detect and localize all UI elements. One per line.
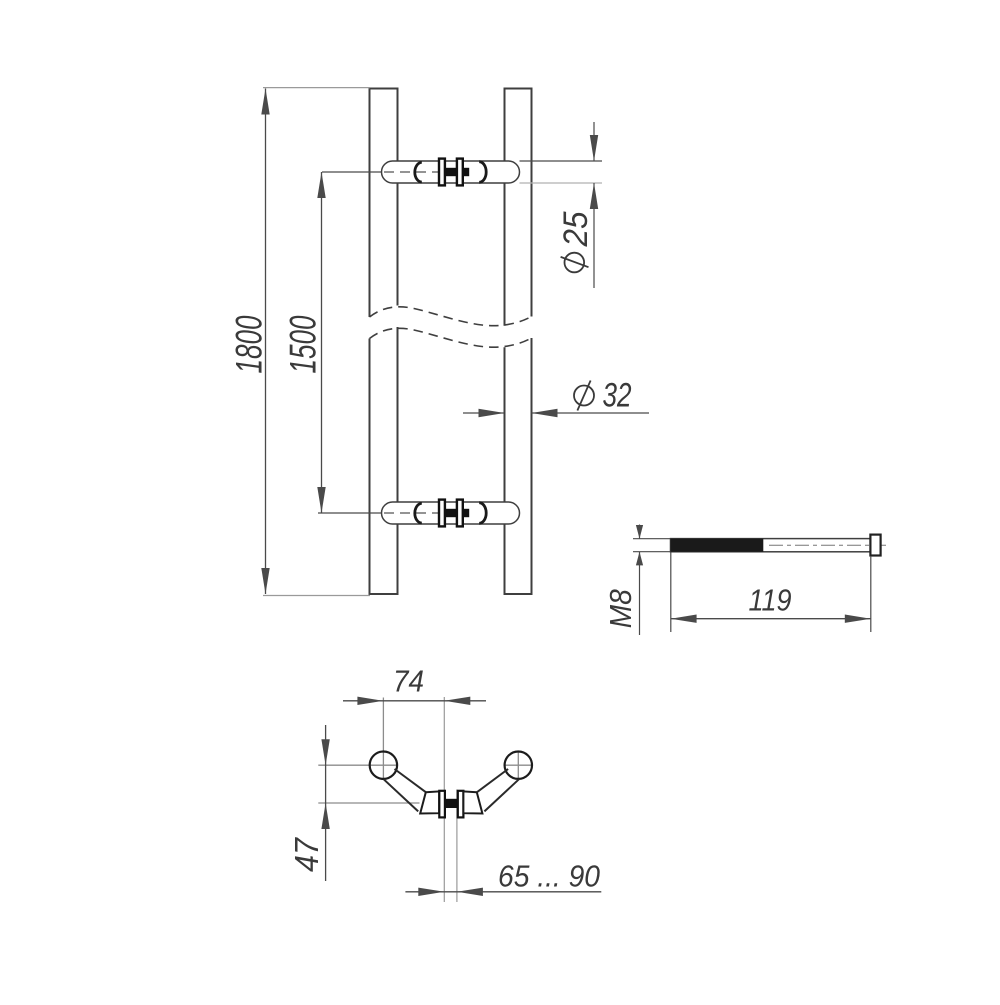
upper mounting connector: capsule body Ø25 — [382, 161, 520, 183]
upper connector: bolt tip square — [463, 168, 469, 176]
dimension 1800: arrowhead down — [261, 568, 269, 594]
top view: center extension line B (right washer face) — [456, 790, 458, 903]
top view: right circle horizontal tick — [505, 764, 532, 766]
front view: left tube Ø32 — [369, 89, 399, 595]
break line upper (dashed S-curve) — [370, 307, 532, 326]
dimension 47: dimension line — [325, 725, 327, 881]
svg-text:47: 47 — [288, 836, 325, 872]
dimension M8: extension lines — [633, 539, 670, 552]
dimension 47: arrowhead up — [321, 803, 329, 829]
svg-text:119: 119 — [749, 583, 792, 618]
top view: right leg lower edge — [484, 779, 519, 811]
top view: horizontal centerline through left circle — [318, 764, 398, 766]
lower connector: dashed centerline — [384, 512, 444, 514]
fixing bolt: threaded part (solid) — [671, 539, 764, 552]
dimension M8: upper line + arrowhead down — [639, 525, 641, 539]
lower connector: right washer arc — [479, 503, 486, 524]
dimension 1500: extension line bottom — [318, 512, 382, 514]
lower connector: left flange plate — [439, 500, 445, 527]
top view: left tube section circle — [370, 752, 397, 779]
lower mounting connector: capsule body Ø25 — [382, 502, 520, 524]
top view: right leg upper edge — [477, 769, 508, 792]
break line lower (dashed S-curve) — [370, 328, 532, 347]
upper connector: left flange plate — [439, 159, 445, 186]
top view: bolt shaft — [445, 799, 458, 808]
dimension 119: extension line left — [670, 553, 672, 633]
dimension 74: arrowhead right — [357, 697, 383, 705]
dimension 1500: extension line top — [322, 171, 382, 173]
fixing bolt: shaft outline — [671, 539, 871, 552]
dimension 1500: arrowhead down — [317, 487, 325, 513]
dimension 65...90: arrowhead left — [457, 888, 483, 896]
top view: extension line at 47 offset — [318, 802, 419, 804]
dimension 1800: arrowhead up — [261, 89, 269, 115]
dimension 1800: extension line bottom — [263, 595, 370, 597]
upper connector: dashed centerline — [384, 171, 444, 173]
dimension 1500: dimension line — [321, 172, 323, 513]
fixing bolt: centerline dash-dot — [769, 544, 886, 546]
dimension 119: arrowhead left — [671, 615, 697, 623]
top view: center extension line A (left washer face) — [443, 697, 445, 902]
dimension 1800: extension line top — [263, 87, 370, 89]
lower connector: bolt tip square — [463, 509, 469, 517]
front view: right tube Ø32 — [504, 89, 533, 595]
fixing bolt: head — [870, 535, 880, 556]
dimension 74: dimension line — [343, 700, 486, 702]
svg-text:25: 25 — [557, 211, 595, 247]
svg-text:32: 32 — [603, 377, 632, 415]
dimension Ø25: extension line top — [520, 160, 603, 162]
svg-text:65 ... 90: 65 ... 90 — [498, 859, 600, 894]
top view: left leg lower edge — [384, 779, 419, 811]
upper connector: right flange plate — [457, 159, 463, 186]
upper connector: right washer arc — [479, 162, 486, 183]
dimension 47: arrowhead down — [321, 739, 329, 765]
top view: right tube section circle — [505, 752, 532, 779]
dimension Ø25: arrowhead down — [590, 135, 598, 161]
lower connector: bolt shaft — [445, 509, 458, 517]
svg-text:74: 74 — [393, 664, 424, 699]
dimension 119: arrowhead right — [845, 615, 871, 623]
dimension Ø25: arrowhead up — [590, 183, 598, 209]
dimension Ø25: dimension line lower — [593, 183, 595, 288]
dimension 119: dimension line — [671, 618, 871, 620]
svg-text:1800: 1800 — [229, 315, 270, 373]
svg-text:M8: M8 — [603, 589, 638, 629]
top view: right cone flange — [463, 791, 482, 813]
lower connector: right flange plate — [457, 500, 463, 527]
lower connector: left washer arc — [415, 503, 422, 523]
upper connector: bolt shaft — [445, 168, 458, 176]
dimension 74: arrowhead left — [444, 697, 470, 705]
dimension Ø25: diameter symbol — [561, 253, 589, 273]
upper connector: left washer arc — [415, 162, 422, 182]
top view: left leg upper edge — [395, 769, 427, 792]
dimension 119: extension line right — [870, 556, 872, 632]
dimension Ø32: dimension line right with arrowhead — [532, 412, 650, 414]
dimension Ø32: dimension line left with arrowhead — [463, 412, 504, 414]
top view: left cone flange — [420, 791, 439, 813]
dimension Ø25: extension line bottom (light) — [520, 182, 603, 184]
top view: extension line left circle axis (vertical) — [382, 698, 384, 780]
top view: left washer plate — [439, 791, 445, 818]
dimension 65...90: arrowhead right — [418, 888, 444, 896]
dimension 1500: arrowhead up — [317, 172, 325, 198]
dimension 1800: dimension line — [265, 89, 267, 595]
dimension 65...90: dimension line — [405, 891, 601, 893]
dimension Ø32: diameter symbol — [574, 381, 594, 411]
dimension Ø25: dimension line upper — [593, 122, 595, 161]
top view: right circle vertical tick — [517, 752, 519, 778]
dimension M8: lower line + arrowhead up — [639, 552, 641, 635]
top view: right washer plate — [458, 791, 464, 818]
svg-text:1500: 1500 — [283, 315, 324, 373]
